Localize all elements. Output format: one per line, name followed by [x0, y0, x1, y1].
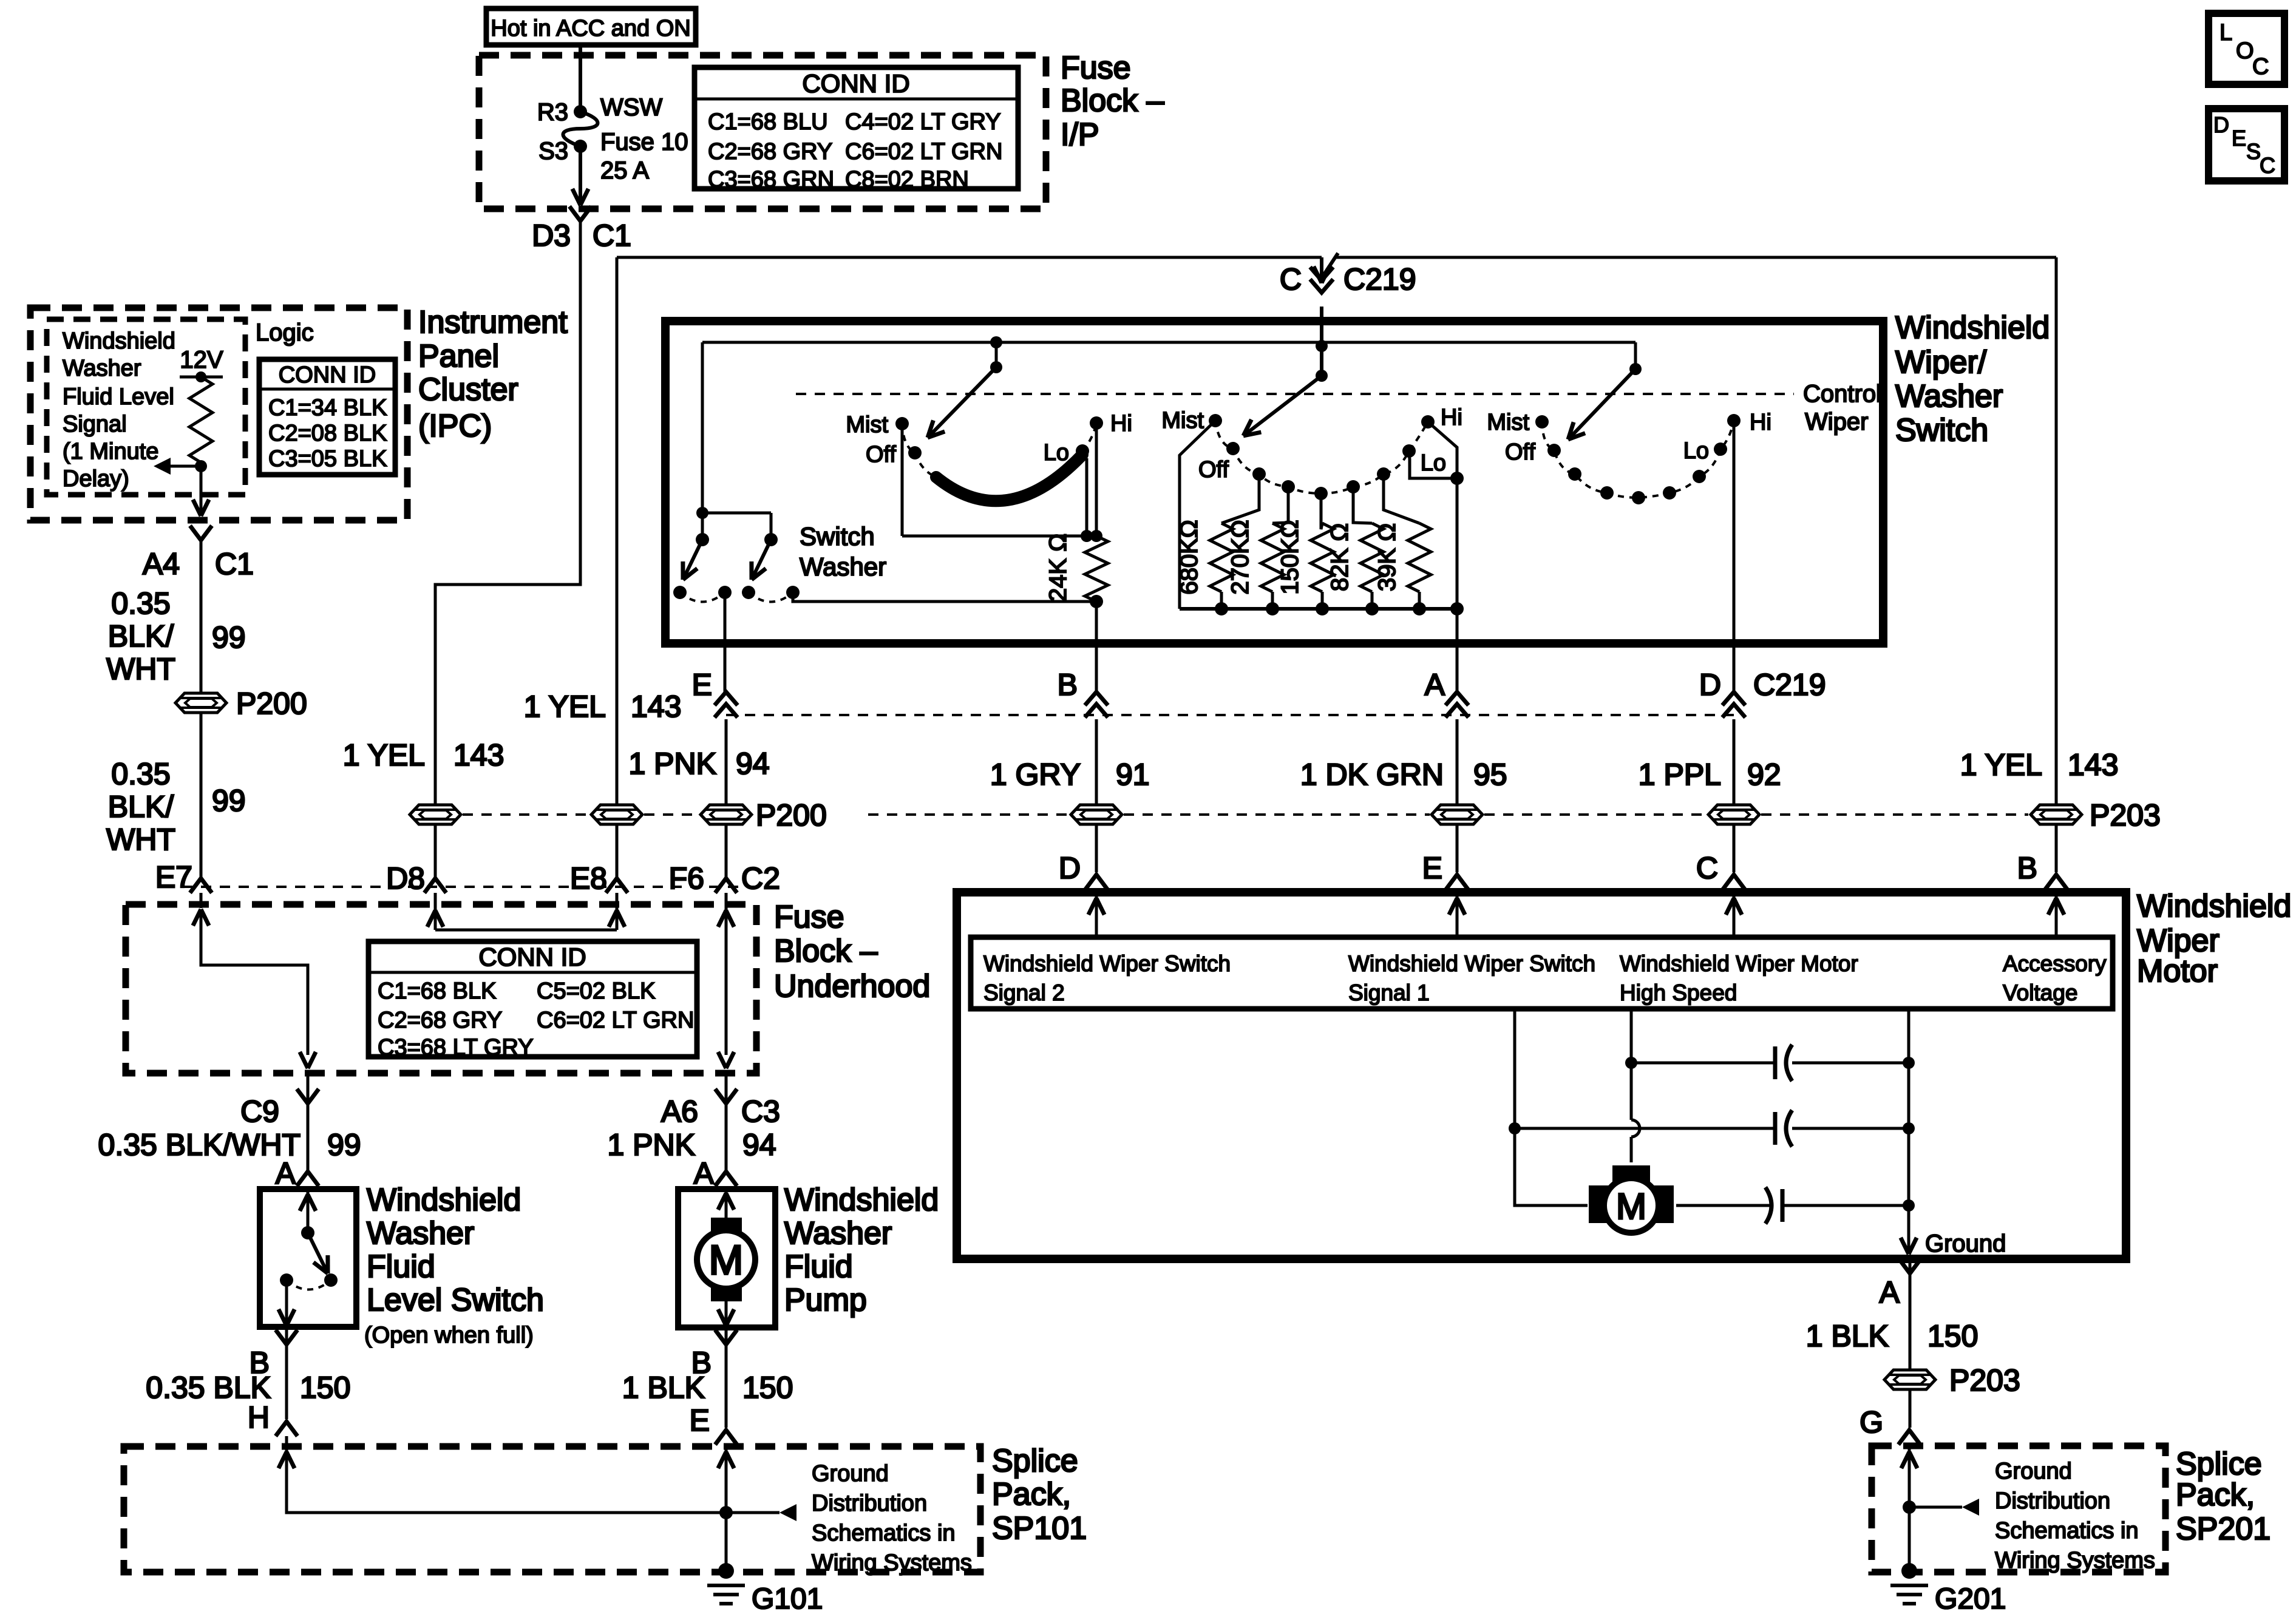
- connector P200 lens (B column): [1071, 805, 1122, 824]
- connector B pump: [725, 1327, 728, 1344]
- svg-text:Control: Control: [1803, 381, 1881, 407]
- Windshield Washer Fluid Level Switch box: [260, 1189, 356, 1327]
- svg-text:143: 143: [453, 738, 504, 772]
- wire lens to D8: [434, 825, 437, 878]
- svg-text:CONN ID: CONN ID: [802, 69, 909, 98]
- connector E SP101: [715, 1430, 737, 1445]
- svg-text:150: 150: [1927, 1319, 1978, 1353]
- svg-text:C: C: [2260, 153, 2275, 178]
- bank1 outline and verticals: [901, 424, 904, 536]
- connector C pin motor: [1723, 875, 1745, 889]
- svg-text:BLK/: BLK/: [108, 790, 174, 824]
- svg-text:S: S: [2246, 139, 2261, 164]
- svg-text:1 BLK: 1 BLK: [622, 1371, 705, 1405]
- svg-text:Windshield: Windshield: [63, 328, 175, 354]
- svg-text:Ground: Ground: [1995, 1459, 2072, 1484]
- connector P200 lens (E/F6 column): [701, 805, 752, 824]
- svg-text:E7: E7: [155, 860, 192, 894]
- wire to pump: [725, 1103, 728, 1171]
- bank2 bottom bus: [1180, 607, 1457, 611]
- Fuse Block I/P dashed box: [479, 55, 1046, 209]
- wire D3/C1 down and left to D8 column: [435, 221, 580, 804]
- svg-text:1 YEL: 1 YEL: [1960, 748, 2042, 782]
- svg-text:Signal 1: Signal 1: [1348, 980, 1430, 1005]
- svg-text:A: A: [1425, 668, 1445, 702]
- svg-text:Off: Off: [1198, 457, 1229, 483]
- wire to G: [1909, 1390, 1912, 1428]
- A column wire 1 DK GRN 95: [1456, 719, 1459, 804]
- bank1 contacts Mist Off Lo Hi: [895, 417, 909, 430]
- svg-text:R3: R3: [537, 99, 568, 126]
- svg-text:39K Ω: 39K Ω: [1374, 523, 1401, 591]
- washer output wires: [724, 592, 727, 643]
- svg-text:WHT: WHT: [106, 652, 175, 686]
- svg-text:1 PNK: 1 PNK: [628, 747, 716, 781]
- svg-text:92: 92: [1747, 758, 1781, 792]
- svg-text:P203: P203: [1949, 1363, 2020, 1397]
- D column wire 1 PPL 92: [1733, 719, 1736, 804]
- bank2 outline right (Hi): [1428, 422, 1457, 609]
- svg-text:Switch: Switch: [800, 522, 875, 551]
- C219 dashed interface line: [726, 714, 1734, 716]
- connector E pin motor: [1446, 875, 1468, 889]
- connector F6: [715, 878, 737, 893]
- svg-text:0.35 BLK/WHT: 0.35 BLK/WHT: [98, 1128, 301, 1162]
- svg-text:D: D: [2213, 112, 2229, 137]
- washer switch arm right: [752, 540, 771, 580]
- svg-text:CONN ID: CONN ID: [478, 943, 586, 971]
- right 143 column: [2055, 257, 2058, 804]
- svg-text:1 PNK: 1 PNK: [607, 1128, 695, 1162]
- svg-text:Block –: Block –: [1061, 83, 1164, 118]
- svg-text:Signal: Signal: [63, 412, 127, 437]
- svg-text:D3: D3: [532, 219, 571, 253]
- Windshield Wiper Motor box: [957, 892, 2126, 1259]
- svg-text:Schematics in: Schematics in: [812, 1520, 956, 1546]
- svg-text:H: H: [248, 1400, 270, 1434]
- bank2 contacts: [1209, 414, 1222, 427]
- svg-text:Logic: Logic: [256, 319, 314, 346]
- resistor 24K: [1085, 536, 1108, 602]
- connector D8: [424, 878, 446, 893]
- svg-text:C1=68 BLU: C1=68 BLU: [708, 109, 828, 135]
- svg-text:Windshield Wiper Motor: Windshield Wiper Motor: [1620, 951, 1858, 976]
- svg-text:Windshield: Windshield: [2137, 889, 2291, 924]
- ground exit arrow: [1909, 1238, 1917, 1254]
- svg-text:M: M: [1616, 1186, 1646, 1227]
- Lo box: [1409, 451, 1457, 478]
- svg-text:Instrument: Instrument: [418, 305, 568, 340]
- bank3 arm pivot: [1634, 342, 1637, 369]
- connector P200 lens (A column): [1432, 805, 1483, 824]
- bank1 thick contact arc: [936, 455, 1082, 501]
- bank2 outline left: [1180, 421, 1215, 609]
- bank3 arc contact dot (2699,820): [1632, 491, 1645, 504]
- svg-text:C3=68 LT GRY: C3=68 LT GRY: [378, 1035, 534, 1060]
- svg-text:1 YEL: 1 YEL: [524, 690, 606, 724]
- LOC box: [2209, 13, 2284, 84]
- svg-text:Hi: Hi: [1110, 411, 1132, 436]
- svg-text:C8=02 BRN: C8=02 BRN: [845, 167, 969, 192]
- svg-text:Fuse: Fuse: [774, 900, 844, 935]
- wire B to H: [285, 1344, 288, 1419]
- D8-E8 jumper: [435, 929, 617, 932]
- capacitor row 2: [1515, 1127, 1775, 1130]
- svg-text:Schematics in: Schematics in: [1995, 1518, 2139, 1544]
- svg-text:WSW: WSW: [600, 94, 662, 121]
- svg-text:95: 95: [1473, 758, 1507, 792]
- connector A4/C1: [190, 526, 212, 540]
- svg-text:C3=68 GRN: C3=68 GRN: [708, 167, 834, 192]
- svg-text:Signal 2: Signal 2: [983, 980, 1065, 1005]
- svg-text:C1: C1: [215, 547, 254, 581]
- svg-text:Distribution: Distribution: [812, 1491, 927, 1516]
- reference arrow to ground distribution: [1909, 1506, 1962, 1509]
- svg-text:Panel: Panel: [418, 339, 499, 374]
- svg-text:C1=34 BLK: C1=34 BLK: [268, 395, 387, 421]
- Windshield Wiper/Washer Switch box: [665, 321, 1883, 643]
- Instrument Panel Cluster dashed box: [30, 308, 407, 520]
- svg-text:L: L: [2220, 20, 2232, 46]
- bank2 arc contact dot (2074,781): [1252, 467, 1266, 481]
- svg-text:A4: A4: [143, 547, 180, 581]
- connector A motor ground: [1909, 1263, 1912, 1273]
- svg-text:1 BLK: 1 BLK: [1806, 1319, 1889, 1353]
- wire down to A4: [200, 466, 203, 514]
- inner feed line: [702, 341, 1635, 344]
- wire from Hot box to fuse: [579, 45, 582, 110]
- resistor 82KΩ with lead and bus junction: [1353, 487, 1372, 523]
- svg-text:Motor: Motor: [2137, 954, 2218, 989]
- svg-text:WHT: WHT: [106, 822, 175, 856]
- switch washer common feed: [701, 342, 704, 540]
- svg-text:(Open when full): (Open when full): [364, 1323, 534, 1348]
- wiper motor M symbol: [1612, 1165, 1650, 1187]
- resistor in IPC: [189, 377, 212, 463]
- svg-text:99: 99: [212, 620, 246, 654]
- node / output arrow: [195, 460, 207, 472]
- E column wire 1 PNK 94: [725, 719, 728, 804]
- svg-text:E: E: [690, 1403, 710, 1437]
- motor internal left vertical: [1515, 1009, 1588, 1205]
- Fuse Block Underhood dashed box: [126, 904, 756, 1073]
- connector H: [276, 1422, 297, 1436]
- connector D pin motor: [1085, 875, 1107, 889]
- svg-text:Fluid: Fluid: [784, 1249, 853, 1284]
- capacitor row 1: [1631, 1062, 1775, 1065]
- svg-text:Voltage: Voltage: [2003, 980, 2077, 1005]
- svg-text:C1: C1: [593, 219, 631, 253]
- svg-text:1 PPL: 1 PPL: [1639, 758, 1721, 792]
- svg-text:Pump: Pump: [784, 1283, 867, 1318]
- level switch internals: [307, 1189, 310, 1233]
- connector P203 lens: [2031, 805, 2082, 824]
- svg-text:C: C: [2252, 54, 2269, 80]
- svg-text:680KΩ: 680KΩ: [1176, 520, 1203, 594]
- svg-text:Distribution: Distribution: [1995, 1488, 2110, 1514]
- svg-text:Washer: Washer: [784, 1216, 892, 1251]
- svg-text:150: 150: [300, 1371, 350, 1405]
- bank3 arc contact dot (2647,812): [1600, 486, 1614, 500]
- Splice Pack SP101 dashed box: [124, 1446, 980, 1572]
- resistor 270KΩ with lead and bus junction: [1272, 487, 1288, 523]
- svg-text:C2=68 GRY: C2=68 GRY: [708, 139, 832, 164]
- connector P203 lens (ground): [1884, 1370, 1935, 1389]
- svg-text:C2=68 GRY: C2=68 GRY: [378, 1008, 502, 1033]
- E7 internal route to C9: [201, 909, 308, 1055]
- svg-text:Level Switch: Level Switch: [367, 1283, 544, 1318]
- svg-text:Fluid: Fluid: [367, 1249, 435, 1284]
- G wire inside SP201: [1908, 1448, 1911, 1571]
- svg-text:143: 143: [2068, 748, 2118, 782]
- svg-text:Off: Off: [1505, 439, 1535, 465]
- svg-text:Pack,: Pack,: [992, 1477, 1071, 1512]
- svg-text:Washer: Washer: [367, 1216, 474, 1251]
- CONN ID table (underhood): [369, 941, 697, 1057]
- ground G101: [718, 1563, 734, 1579]
- bank3 Hi output (D column): [1733, 421, 1736, 643]
- bank3 arc contact dot (2799,785): [1693, 470, 1706, 483]
- B column exit: [1095, 643, 1098, 692]
- connector P200 lens on D8 column: [410, 805, 461, 824]
- motor pin label box: [971, 937, 2113, 1009]
- svg-text:1 GRY: 1 GRY: [990, 758, 1081, 792]
- wire B to E: [725, 1344, 728, 1428]
- svg-text:O: O: [2236, 38, 2254, 64]
- connector C219 pin B: [1085, 692, 1108, 705]
- pump motor symbol: [725, 1189, 728, 1218]
- svg-text:C9: C9: [240, 1094, 279, 1128]
- bank1 dashed arcs: [902, 424, 915, 453]
- connector P200 (left): [175, 693, 226, 713]
- motor internal right/ground vertical: [1907, 1009, 1911, 1249]
- svg-text:94: 94: [742, 1128, 776, 1162]
- svg-text:Wiring Systems: Wiring Systems: [812, 1550, 972, 1576]
- washer switch contacts: [673, 586, 687, 599]
- connector A6/C3: [725, 1073, 728, 1103]
- svg-text:A: A: [694, 1156, 715, 1190]
- svg-text:Switch: Switch: [1895, 413, 1988, 448]
- svg-text:B: B: [1058, 668, 1078, 702]
- svg-text:D: D: [1699, 668, 1721, 702]
- svg-text:Splice: Splice: [992, 1443, 1078, 1479]
- wire fuse to box edge with arrow: [579, 146, 582, 204]
- svg-text:C219: C219: [1343, 262, 1416, 296]
- svg-text:Windshield Wiper Switch: Windshield Wiper Switch: [983, 951, 1231, 976]
- bank1 arm pivot: [990, 336, 1002, 348]
- svg-text:Washer: Washer: [1895, 379, 2003, 414]
- svg-text:25 A: 25 A: [600, 157, 649, 184]
- svg-text:Mist: Mist: [1487, 410, 1529, 435]
- svg-text:C2: C2: [741, 861, 780, 895]
- svg-text:Block –: Block –: [774, 934, 878, 969]
- Windshield Washer Fluid Level Signal dashed box: [47, 319, 245, 495]
- E wire inside SP101: [725, 1449, 728, 1571]
- svg-text:Pack,: Pack,: [2176, 1477, 2255, 1513]
- H wire inside SP101: [287, 1449, 726, 1513]
- svg-text:143: 143: [631, 690, 681, 724]
- connector C219 pin A: [1445, 692, 1469, 705]
- svg-text:C1=68 BLK: C1=68 BLK: [378, 978, 496, 1004]
- CONN ID table (IPC): [259, 359, 395, 475]
- svg-text:Hi: Hi: [1750, 410, 1771, 435]
- svg-text:P200: P200: [236, 686, 307, 720]
- svg-text:G201: G201: [1935, 1583, 2006, 1615]
- bank3 dashed arc: [1542, 421, 1734, 498]
- bank2 arm pivot: [1316, 340, 1328, 352]
- CONN ID table (Fuse Block I/P): [695, 67, 1018, 189]
- wire 1 BLK 150: [1909, 1273, 1912, 1369]
- ground G201: [1901, 1563, 1917, 1579]
- svg-text:24K Ω: 24K Ω: [1045, 534, 1072, 602]
- svg-text:Lo: Lo: [1421, 450, 1446, 476]
- bank2 arc contact dot (2229,802): [1347, 480, 1360, 493]
- svg-text:0.35: 0.35: [111, 757, 170, 791]
- svg-text:Lo: Lo: [1683, 438, 1709, 464]
- svg-text:D: D: [1059, 851, 1081, 885]
- svg-text:S3: S3: [538, 138, 568, 164]
- bank2 arc contact dot (2176,813): [1314, 487, 1328, 500]
- capacitor row 3: [1676, 1204, 1773, 1207]
- connector B pin motor: [2045, 875, 2067, 889]
- svg-text:Cluster: Cluster: [418, 372, 518, 407]
- svg-text:E: E: [2232, 126, 2246, 151]
- reference arrow to ground distribution: [726, 1511, 779, 1514]
- motor internal center vertical with hop: [1630, 1009, 1633, 1120]
- svg-text:Wiper: Wiper: [1805, 408, 1868, 435]
- svg-text:Windshield: Windshield: [784, 1182, 939, 1218]
- control wiper dashed line: [796, 393, 1794, 395]
- svg-text:SP201: SP201: [2176, 1511, 2271, 1547]
- svg-text:C2=08 BLK: C2=08 BLK: [268, 421, 387, 446]
- svg-text:A: A: [276, 1156, 296, 1190]
- power source label: Hot in ACC and ON: [486, 8, 696, 45]
- svg-text:E8: E8: [570, 861, 607, 895]
- svg-text:Fuse: Fuse: [1061, 50, 1131, 86]
- connector A pump: [715, 1171, 737, 1186]
- svg-text:1 DK GRN: 1 DK GRN: [1300, 758, 1444, 792]
- svg-text:Windshield: Windshield: [367, 1182, 521, 1218]
- DESC box: [2209, 109, 2284, 181]
- svg-text:A6: A6: [661, 1094, 698, 1128]
- svg-text:99: 99: [212, 784, 246, 818]
- E8 column: [616, 257, 619, 804]
- A column exit: [1456, 643, 1459, 692]
- bank2 arc contact dot (2279,781): [1377, 467, 1390, 481]
- svg-text:99: 99: [327, 1128, 361, 1162]
- svg-text:Ground: Ground: [812, 1461, 889, 1486]
- 143 bus: E8 column up and across: [617, 256, 1322, 259]
- svg-text:Accessory: Accessory: [2003, 951, 2107, 976]
- svg-text:P203: P203: [2090, 798, 2161, 832]
- svg-text:C5=02 BLK: C5=02 BLK: [537, 978, 655, 1004]
- connector E7: [190, 878, 212, 893]
- F6 to C3 exit arrow: [726, 1052, 734, 1068]
- wire P200 to E7: [200, 713, 203, 878]
- svg-text:CONN ID: CONN ID: [279, 362, 376, 388]
- svg-text:(IPC): (IPC): [418, 408, 492, 444]
- svg-text:150: 150: [742, 1371, 793, 1405]
- svg-text:SP101: SP101: [992, 1511, 1087, 1546]
- svg-text:0.35: 0.35: [111, 586, 170, 620]
- svg-text:Windshield: Windshield: [1895, 310, 2050, 345]
- svg-text:270KΩ: 270KΩ: [1227, 520, 1254, 594]
- svg-text:Wiring Systems: Wiring Systems: [1995, 1548, 2155, 1573]
- connector G SP201: [1898, 1430, 1920, 1445]
- svg-text:12V: 12V: [180, 347, 223, 373]
- Windshield Washer Fluid Pump box: [678, 1189, 775, 1327]
- svg-text:C3=05 BLK: C3=05 BLK: [268, 446, 387, 472]
- svg-text:E: E: [1422, 851, 1442, 885]
- svg-text:Delay): Delay): [63, 466, 129, 492]
- svg-text:Splice: Splice: [2176, 1446, 2262, 1482]
- B column wire 1 GRY 91: [1095, 719, 1098, 804]
- svg-text:0.35 BLK: 0.35 BLK: [146, 1371, 271, 1405]
- svg-text:B: B: [2017, 851, 2037, 885]
- svg-text:Windshield Wiper Switch: Windshield Wiper Switch: [1348, 951, 1595, 976]
- svg-text:Hi: Hi: [1441, 405, 1462, 430]
- bank2 dashed arc: [1215, 421, 1428, 493]
- svg-text:Hot in ACC and ON: Hot in ACC and ON: [491, 16, 690, 41]
- connector B level switch: [285, 1327, 288, 1344]
- wire A4 to P200: [200, 540, 203, 693]
- entry arrows E7 D8 E8 F6: [200, 893, 203, 908]
- svg-text:C3: C3: [741, 1094, 780, 1128]
- connector D3/C1 chevron: [569, 206, 591, 221]
- svg-text:P200: P200: [756, 798, 827, 832]
- svg-text:E: E: [692, 668, 712, 702]
- svg-text:Off: Off: [866, 442, 896, 467]
- P200/P203 dashed row: [463, 813, 589, 816]
- resistor 39KΩ with lead and bus junction: [1384, 474, 1419, 523]
- wire to F6: [725, 825, 728, 878]
- svg-text:A: A: [1880, 1275, 1900, 1309]
- svg-text:C: C: [1280, 262, 1302, 296]
- connector C9: [307, 1073, 310, 1103]
- svg-text:Fluid Level: Fluid Level: [63, 384, 174, 410]
- svg-text:C4=02 LT GRY: C4=02 LT GRY: [845, 109, 1001, 135]
- svg-text:1 YEL: 1 YEL: [343, 738, 425, 772]
- svg-text:D8: D8: [386, 861, 425, 895]
- svg-text:G101: G101: [752, 1583, 823, 1615]
- svg-text:Ground: Ground: [1925, 1230, 2006, 1257]
- motor pin entry arrows D E C B: [1095, 892, 1098, 940]
- svg-text:High Speed: High Speed: [1620, 980, 1737, 1005]
- svg-text:Washer: Washer: [63, 356, 141, 381]
- resistor 150KΩ with lead and bus junction: [1321, 493, 1322, 529]
- svg-text:I/P: I/P: [1061, 117, 1099, 152]
- bank2 arc contact dot (2122,802): [1282, 480, 1295, 493]
- C219 pin C arrow and chevrons: [1320, 257, 1323, 280]
- connector C219 pin E: [715, 692, 738, 705]
- connector C219 pin D: [1722, 692, 1745, 705]
- svg-text:Mist: Mist: [846, 412, 888, 438]
- Splice Pack SP201 dashed box: [1872, 1446, 2165, 1572]
- svg-text:Lo: Lo: [1044, 440, 1069, 466]
- underhood interface dashed line: [182, 886, 759, 888]
- svg-text:C6=02 LT GRN: C6=02 LT GRN: [845, 139, 1002, 164]
- svg-text:F6: F6: [669, 861, 704, 895]
- resistor 680KΩ with lead and bus junction: [1221, 474, 1259, 523]
- bank2 output to A column: [1456, 609, 1459, 643]
- svg-text:Mist: Mist: [1161, 408, 1204, 433]
- svg-text:94: 94: [736, 747, 770, 781]
- svg-text:Wiper/: Wiper/: [1895, 345, 1987, 380]
- bank3 arc contact dot (2750,812): [1663, 486, 1676, 500]
- svg-text:M: M: [709, 1237, 744, 1283]
- bank3 arc contact dot (2594,781): [1568, 467, 1581, 481]
- bank3 contacts: [1535, 415, 1549, 429]
